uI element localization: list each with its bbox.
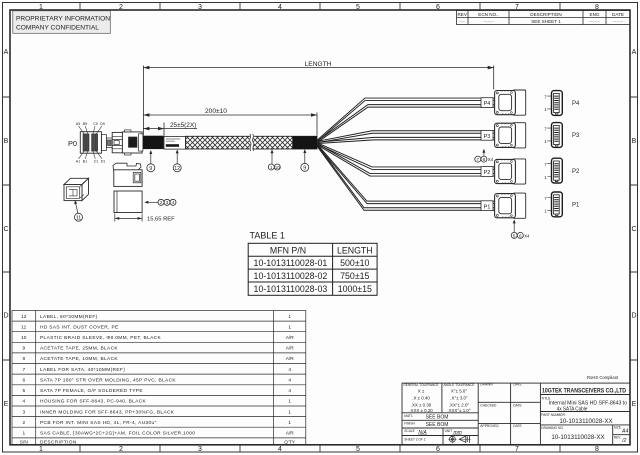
sata front view P3	[544, 123, 562, 148]
svg-text:11: 11	[76, 215, 82, 221]
svg-text:HD SAS INT. DUST COVER, P: HD SAS INT. DUST COVER, PE	[40, 324, 119, 330]
balloon 11	[74, 200, 82, 221]
svg-text:6: 6	[519, 233, 522, 238]
svg-text:200±10: 200±10	[205, 108, 227, 115]
svg-text:2: 2	[119, 4, 123, 11]
proprietary note box	[13, 11, 111, 34]
svg-text:.XX ± 0.30: .XX ± 0.30	[411, 402, 432, 407]
svg-text:10GTEK TRANSCEIVERS CO.,LTD: 10GTEK TRANSCEIVERS CO.,LTD	[542, 387, 626, 394]
latch spring piece	[113, 163, 141, 170]
svg-text:A/R: A/R	[286, 335, 295, 341]
sata front view P4	[544, 91, 562, 116]
svg-text:DATE: DATE	[513, 404, 522, 408]
svg-text:Internal Mini SAS HD SFF-8643: Internal Mini SAS HD SFF-8643 to	[549, 400, 628, 406]
svg-text:SEE BOM: SEE BOM	[426, 414, 449, 420]
svg-text:MFN P/N: MFN P/N	[270, 245, 306, 255]
svg-text:.X ± 0.40: .X ± 0.40	[412, 396, 430, 401]
svg-text:RoHS Compliant: RoHS Compliant	[587, 375, 619, 380]
svg-text:8: 8	[595, 446, 599, 453]
svg-text:CHECKED: CHECKED	[480, 404, 497, 408]
svg-text:10-1013110028-XX: 10-1013110028-XX	[559, 418, 612, 425]
svg-text:P3: P3	[484, 134, 491, 140]
svg-text:N/A: N/A	[418, 430, 427, 436]
svg-text:A4: A4	[621, 429, 628, 435]
svg-text:S/N: S/N	[20, 439, 29, 445]
svg-text:SCALE: SCALE	[404, 429, 414, 433]
svg-text:ENG: ENG	[590, 12, 600, 17]
connector P0 front view	[80, 132, 112, 154]
svg-text:PART NUMBER.: PART NUMBER.	[541, 413, 566, 417]
svg-text:A: A	[632, 49, 637, 56]
title block	[402, 383, 630, 445]
wires P1 pair	[318, 145, 495, 211]
svg-text:DRAWN: DRAWN	[480, 383, 493, 387]
dimension 25±5(2X)	[143, 123, 197, 136]
molded body (items 2,3,4)	[114, 191, 142, 213]
svg-text:C1: C1	[94, 160, 99, 164]
connector P0 side view	[112, 130, 143, 155]
sata front view P1	[544, 192, 562, 217]
svg-text:PLASTIC BRAID SLEEVE, Φ8.0M: PLASTIC BRAID SLEEVE, Φ8.0MM, PET, BLACK	[40, 335, 161, 341]
acetate tape at fan end (item 9)	[292, 136, 317, 149]
tolerance block text	[403, 383, 474, 387]
svg-text:HOUSING FOR SFF-8643, PC-94: HOUSING FOR SFF-8643, PC-940, BLACK	[40, 399, 147, 405]
svg-text:12: 12	[174, 166, 180, 172]
svg-text:LABEL FOR SATA, 40*10MM(REF: LABEL FOR SATA, 40*10MM(REF)	[40, 367, 125, 373]
svg-text:7: 7	[515, 446, 519, 453]
svg-text:A/R: A/R	[286, 356, 295, 362]
svg-text:750±15: 750±15	[340, 271, 369, 281]
svg-text:DESCRIPTION: DESCRIPTION	[40, 439, 77, 445]
balloon 12	[173, 149, 181, 172]
svg-text:PROPRIETARY INFORMATION: PROPRIETARY INFORMATION	[16, 16, 110, 23]
svg-text:SIZE: SIZE	[614, 425, 621, 429]
svg-text:10-1013110028-03: 10-1013110028-03	[254, 284, 328, 294]
svg-text:8: 8	[483, 157, 486, 162]
svg-text:500±10: 500±10	[340, 258, 369, 268]
svg-text:2: 2	[22, 420, 25, 426]
svg-text:SEE SHEET 1: SEE SHEET 1	[531, 19, 561, 24]
svg-text:D1: D1	[101, 160, 106, 164]
TABLE 1	[248, 243, 377, 295]
svg-text:mm: mm	[454, 430, 462, 436]
svg-text:8: 8	[595, 4, 599, 11]
dust cover 3D (item 11)	[64, 178, 89, 200]
svg-text:D: D	[3, 313, 8, 320]
svg-text:A9: A9	[76, 122, 80, 126]
svg-text:.X°± 3.0°: .X°± 3.0°	[450, 396, 468, 401]
svg-text:Q'TY: Q'TY	[284, 439, 296, 445]
svg-text:DRAWING NO.: DRAWING NO.	[541, 426, 564, 430]
svg-text:P3: P3	[572, 133, 580, 139]
svg-text:DATE: DATE	[513, 424, 522, 428]
svg-text:P2: P2	[572, 169, 580, 175]
svg-text:/2: /2	[621, 438, 626, 444]
wire label box P2	[481, 167, 493, 177]
svg-text:1: 1	[270, 165, 273, 170]
svg-text:4: 4	[278, 446, 282, 453]
balloon 5 6 X4	[511, 219, 530, 238]
svg-text:INNER MOLDING FOR SFF-8643,: INNER MOLDING FOR SFF-8643, PP+30%FG, BL…	[40, 409, 175, 415]
svg-text:11: 11	[21, 324, 26, 330]
connector P2 side view	[495, 159, 526, 184]
svg-text:DESCRIPTION: DESCRIPTION	[530, 12, 561, 17]
svg-text:LENGTH: LENGTH	[305, 61, 332, 68]
wires P4 pair	[318, 98, 495, 142]
svg-text:1: 1	[39, 446, 43, 453]
BOM table	[12, 311, 306, 445]
svg-text:4x SATA Cable: 4x SATA Cable	[557, 407, 588, 413]
svg-text:7: 7	[477, 157, 480, 162]
svg-text:5: 5	[356, 446, 360, 453]
svg-text:6: 6	[22, 377, 25, 383]
svg-text:1: 1	[22, 431, 25, 437]
svg-text:4: 4	[22, 399, 25, 405]
svg-text:REV.: REV.	[614, 435, 621, 439]
svg-text:4: 4	[172, 200, 175, 205]
balloon 7 8 X4	[475, 149, 494, 162]
svg-text:B: B	[632, 138, 637, 145]
svg-text:5: 5	[22, 388, 25, 394]
svg-text:SEE BOM: SEE BOM	[426, 422, 449, 428]
svg-text:4: 4	[288, 367, 291, 373]
svg-text:.XXX°± 1.0°: .XXX°± 1.0°	[447, 408, 470, 413]
svg-text:X ±: X ±	[418, 389, 425, 394]
third angle projection symbol	[448, 435, 471, 443]
svg-text:COMPANY CONFIDENTIAL: COMPANY CONFIDENTIAL	[16, 25, 99, 32]
dimension 15.65 REF	[115, 214, 142, 222]
wire label box P1	[481, 201, 493, 211]
svg-text:10: 10	[21, 335, 27, 341]
svg-text:ECN NO..: ECN NO..	[478, 12, 498, 17]
svg-text:MAT'L: MAT'L	[404, 414, 413, 418]
svg-text:DATE: DATE	[513, 383, 522, 387]
wire label box P4	[481, 98, 493, 108]
svg-text:SATA 7P 180° STR OVER MOL: SATA 7P 180° STR OVER MOLDING, 45P PVC, …	[40, 377, 176, 383]
svg-text:UNIT: UNIT	[445, 429, 452, 433]
svg-text:GENERAL TOLERANCE: GENERAL TOLERANCE	[403, 383, 438, 387]
svg-text:25±5(2X): 25±5(2X)	[170, 122, 196, 129]
svg-text:E: E	[632, 401, 637, 408]
svg-text:4: 4	[278, 4, 282, 11]
svg-text:C: C	[3, 226, 8, 233]
svg-text:A/R: A/R	[286, 431, 295, 437]
svg-text:C9: C9	[93, 122, 98, 126]
svg-text:REV: REV	[457, 12, 467, 17]
wires P3 pair	[318, 131, 495, 144]
svg-text:6: 6	[436, 4, 440, 11]
balloon 1 10	[268, 149, 280, 170]
svg-text:3: 3	[198, 4, 202, 11]
svg-text:C: C	[631, 226, 636, 233]
svg-text:X4: X4	[524, 233, 530, 238]
svg-text:1000±15: 1000±15	[338, 284, 372, 294]
sata front view P2	[544, 158, 562, 183]
svg-text:3: 3	[166, 200, 169, 205]
acetate tape 25mm (item 9)	[143, 136, 164, 149]
svg-text:APPROVED: APPROVED	[480, 424, 499, 428]
svg-text:9: 9	[149, 166, 152, 172]
dimension 200±10	[143, 113, 317, 136]
inner molding assembly view (items 3,4)	[114, 170, 142, 187]
svg-text:E: E	[4, 401, 9, 408]
svg-text:10-1013110028-02: 10-1013110028-02	[254, 271, 328, 281]
svg-text:A/R: A/R	[286, 346, 295, 352]
svg-text:B9: B9	[83, 122, 87, 126]
svg-text:---.--.--: ---.--.--	[613, 19, 623, 23]
P0 pin labels	[76, 122, 106, 164]
svg-text:3: 3	[198, 446, 202, 453]
svg-text:TABLE 1: TABLE 1	[250, 231, 285, 241]
signoff block	[480, 383, 522, 428]
wires P2 pair	[318, 143, 495, 176]
braid sleeve (items 1,10)	[186, 134, 318, 151]
svg-text:B1: B1	[83, 160, 87, 164]
svg-text:.XX°± 2.0°: .XX°± 2.0°	[449, 402, 470, 407]
svg-text:ANGLE TOLERANCE: ANGLE TOLERANCE	[443, 383, 474, 387]
svg-text:7: 7	[22, 367, 25, 373]
zone letters right	[631, 49, 636, 408]
svg-text:2: 2	[160, 200, 163, 205]
svg-text:P2: P2	[484, 170, 491, 176]
wire label box P3	[481, 130, 493, 140]
svg-text:1: 1	[288, 314, 291, 320]
svg-text:SHEET 2 OF 2: SHEET 2 OF 2	[404, 438, 425, 442]
svg-text:FINISH: FINISH	[404, 421, 415, 425]
svg-text:5: 5	[513, 233, 516, 238]
svg-text:A1: A1	[76, 160, 80, 164]
svg-text:9: 9	[303, 165, 306, 171]
svg-text:7: 7	[515, 4, 519, 11]
svg-text:D: D	[631, 313, 636, 320]
svg-text:3: 3	[22, 409, 25, 415]
svg-text:8: 8	[22, 356, 25, 362]
svg-text:P0: P0	[68, 139, 77, 148]
svg-text:---.--.--: ---.--.--	[484, 19, 494, 23]
svg-text:A: A	[4, 49, 9, 56]
svg-text:1: 1	[288, 324, 291, 330]
connector P4 side view	[495, 90, 526, 115]
svg-text:1: 1	[39, 4, 43, 11]
svg-text:---.--.--: ---.--.--	[590, 19, 600, 23]
svg-text:2: 2	[119, 446, 123, 453]
svg-text:SATA 7P FEMALE, G/F SOLDER: SATA 7P FEMALE, G/F SOLDERED TYPE	[40, 388, 143, 394]
svg-text:4: 4	[288, 388, 291, 394]
svg-text:6: 6	[436, 446, 440, 453]
connector P1 side view	[495, 193, 526, 218]
balloon 9 (tape at fan end)	[301, 149, 309, 171]
svg-text:10-1013110028-01: 10-1013110028-01	[254, 258, 328, 268]
svg-text:PCB FOR INT. MINI SAS HD,: PCB FOR INT. MINI SAS HD, 4L, FR-4, AU30…	[40, 420, 157, 426]
svg-text:X4: X4	[488, 157, 494, 162]
svg-text:1: 1	[288, 409, 291, 415]
svg-text:ACETATE TAPE, 25MM, BLACK: ACETATE TAPE, 25MM, BLACK	[40, 346, 118, 352]
svg-text:P1: P1	[484, 204, 491, 210]
svg-text:4: 4	[288, 377, 291, 383]
svg-text:SAS CABLE, [30AWG*2C+2G]+AM,: SAS CABLE, [30AWG*2C+2G]+AM, FOIL COLOR …	[40, 431, 195, 437]
svg-text:P4: P4	[572, 101, 580, 107]
svg-text:1: 1	[288, 399, 291, 405]
zone numbers bottom	[39, 446, 599, 453]
connector P3 side view	[495, 123, 526, 148]
zone numbers top	[39, 4, 599, 11]
svg-text:B: B	[4, 138, 9, 145]
svg-text:D9: D9	[100, 122, 105, 126]
svg-text:.XXX ± 0.20: .XXX ± 0.20	[409, 408, 433, 413]
svg-text:15.65 REF: 15.65 REF	[147, 216, 175, 222]
dimension LENGTH	[143, 66, 493, 136]
svg-text:P1: P1	[572, 203, 580, 209]
svg-text:9: 9	[22, 346, 25, 352]
balloon 9	[147, 150, 155, 172]
svg-text:ACETATE TAPE, 10MM, BLACK: ACETATE TAPE, 10MM, BLACK	[40, 356, 118, 362]
zone letters left	[3, 49, 8, 408]
svg-text:LABEL, 60*30MM(REF): LABEL, 60*30MM(REF)	[40, 314, 98, 320]
svg-text:P4: P4	[484, 101, 491, 107]
svg-text:LENGTH: LENGTH	[337, 245, 373, 255]
revision table	[457, 11, 631, 25]
svg-text:5: 5	[356, 4, 360, 11]
matl finish scale sheet	[404, 414, 452, 442]
svg-text:10: 10	[275, 165, 281, 170]
svg-text:1: 1	[288, 420, 291, 426]
svg-text:X°± 5.0°: X°± 5.0°	[451, 389, 467, 394]
svg-text:12: 12	[21, 314, 27, 320]
svg-text:DATE: DATE	[612, 12, 624, 17]
balloon 2 3 4	[144, 199, 176, 205]
label 60x30 (item 12)	[164, 136, 186, 149]
svg-text:10-1013110028-XX: 10-1013110028-XX	[551, 434, 604, 441]
svg-text:--.--: --.--	[459, 19, 464, 23]
